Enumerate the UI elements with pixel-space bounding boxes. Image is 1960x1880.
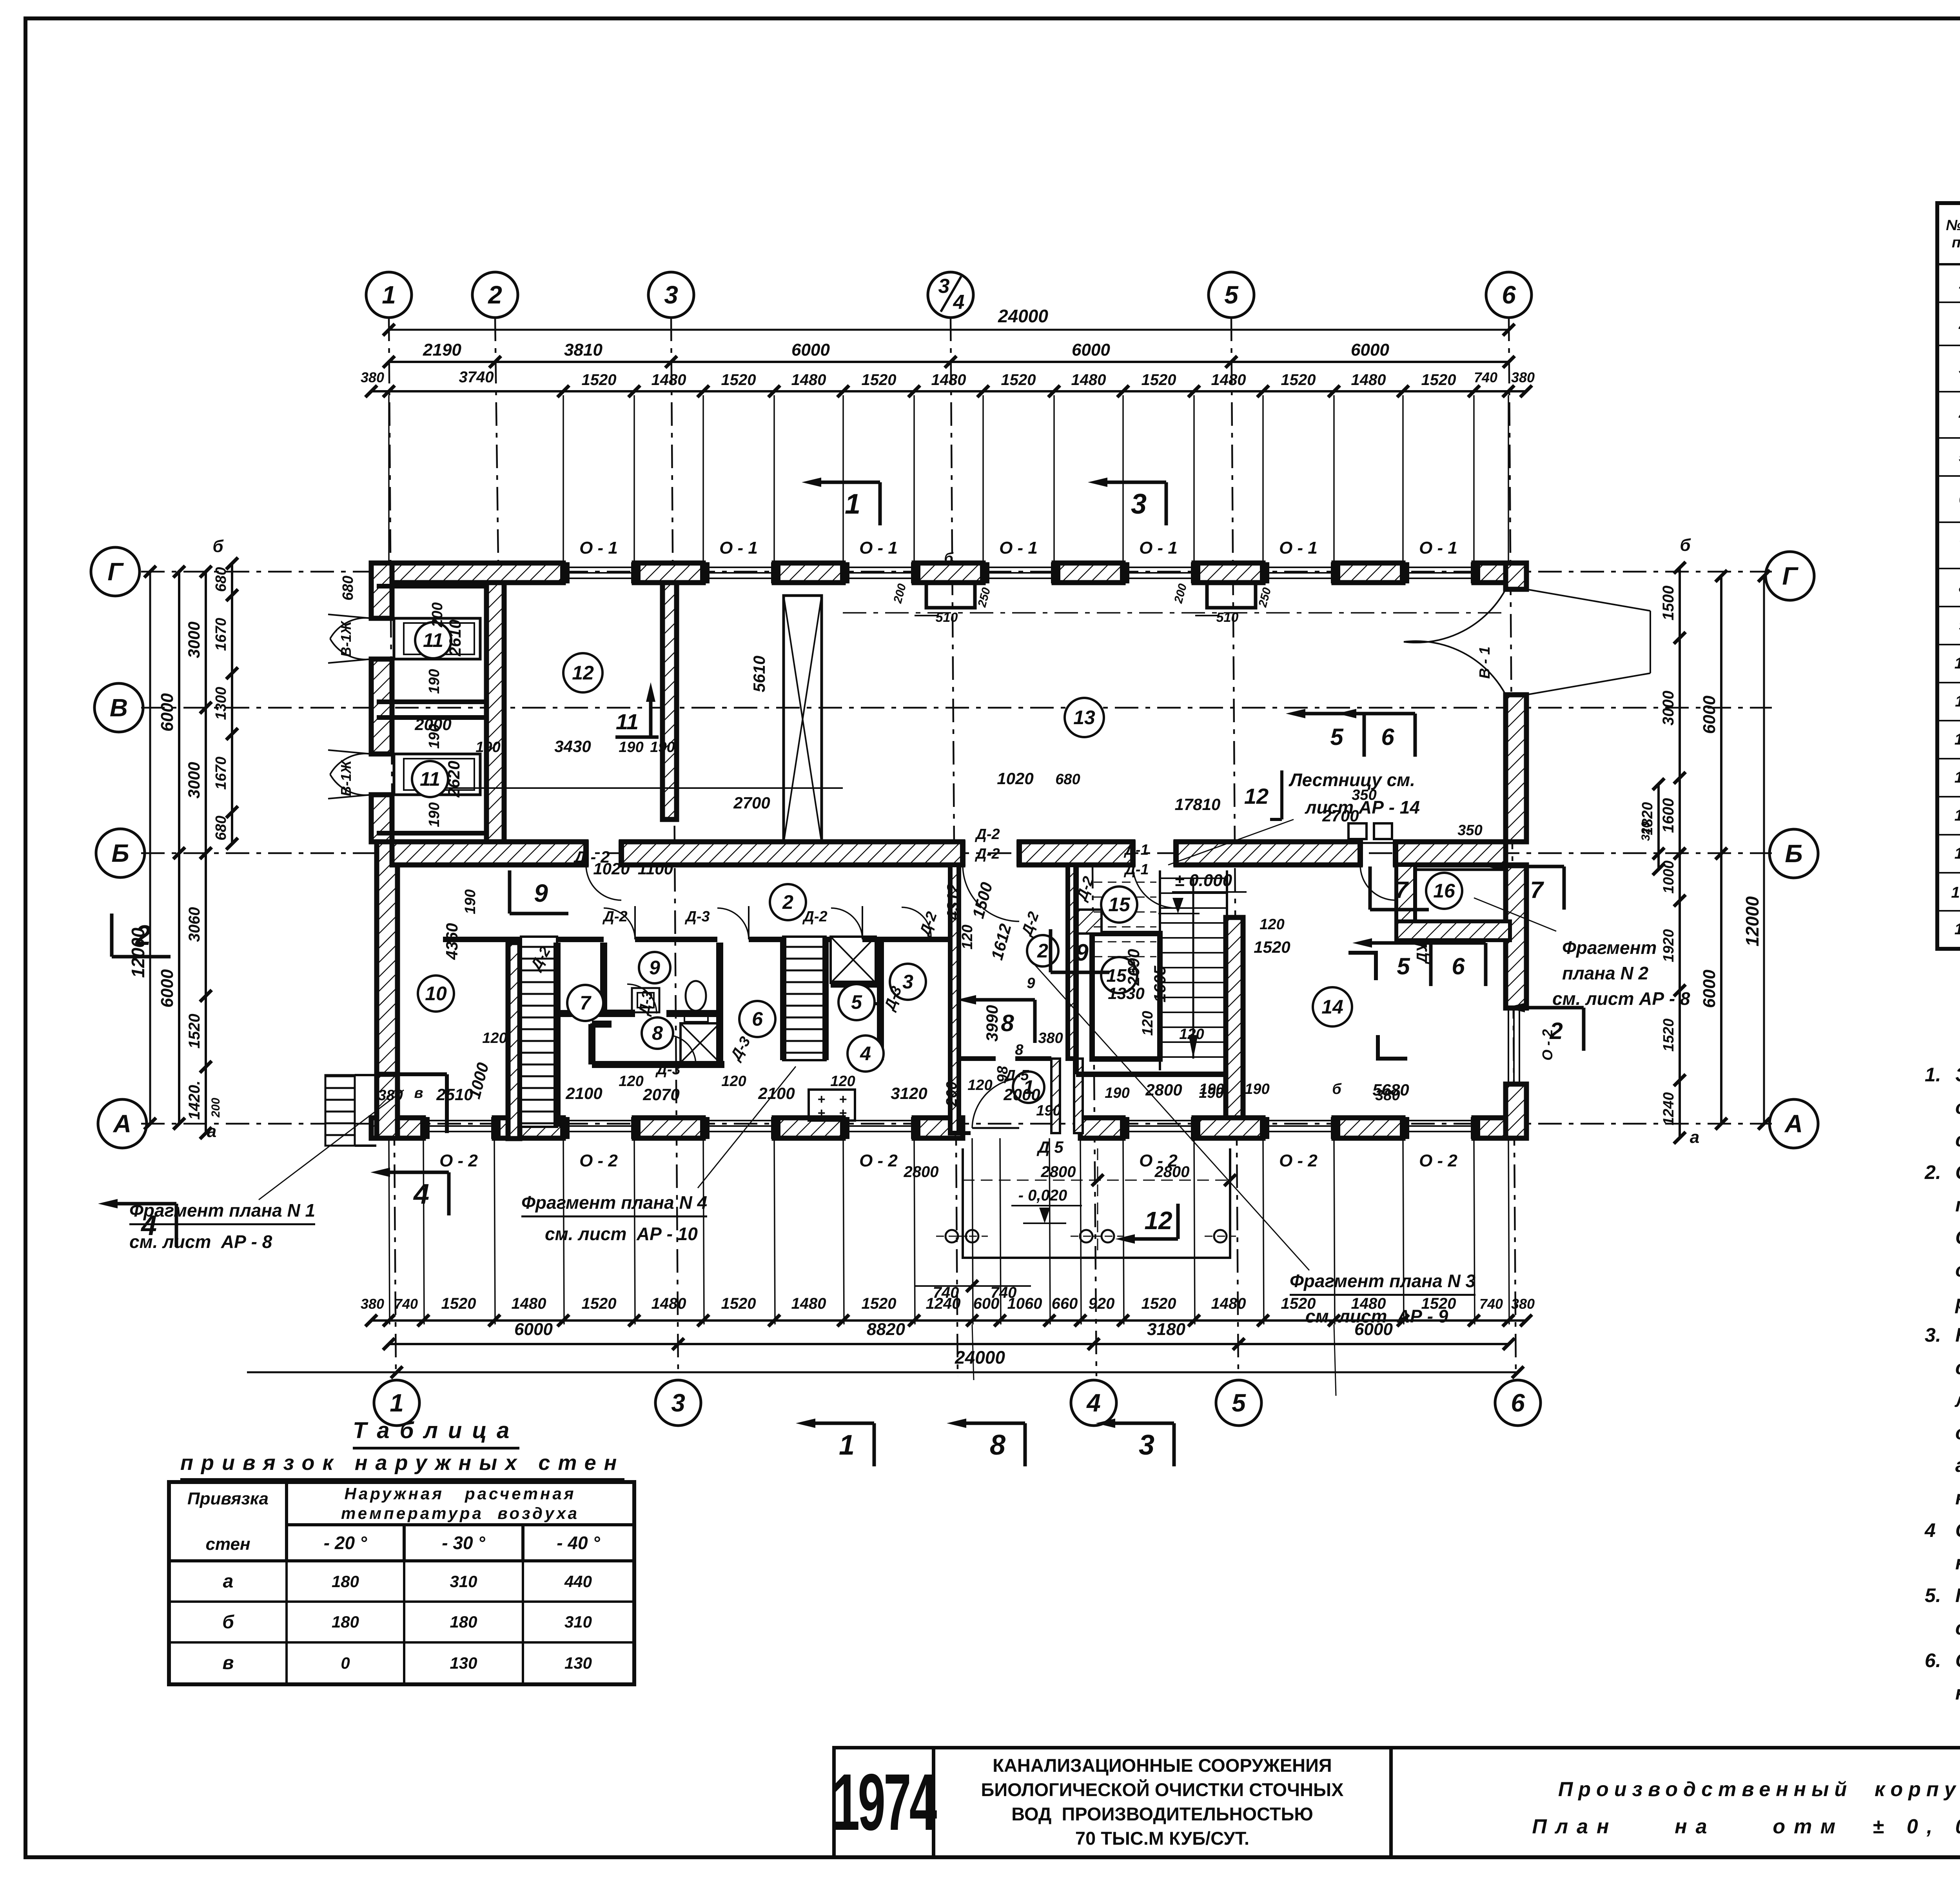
svg-text:9: 9	[534, 879, 548, 907]
room 6 label	[739, 1001, 775, 1037]
svg-text:1480: 1480	[1351, 1295, 1386, 1312]
svg-text:ДУ: ДУ	[1414, 941, 1430, 964]
svg-text:Д-2: Д-2	[975, 826, 1000, 843]
svg-text:1520: 1520	[1254, 938, 1290, 956]
svg-text:В - 1: В - 1	[1477, 647, 1493, 679]
svg-text:1520: 1520	[1001, 371, 1036, 389]
svg-text:5: 5	[851, 991, 862, 1013]
svg-text:Б: Б	[111, 839, 129, 867]
svg-text:1520: 1520	[862, 1295, 897, 1312]
svg-text:1100: 1100	[638, 859, 673, 878]
room 16 walls	[1396, 865, 1415, 924]
room 9 walls	[600, 943, 607, 1014]
svg-text:+: +	[839, 1106, 847, 1121]
svg-text:380: 380	[361, 1296, 384, 1312]
svg-text:9: 9	[1075, 939, 1089, 966]
svg-text:2700: 2700	[733, 794, 770, 812]
svg-text:5: 5	[1232, 1389, 1246, 1417]
svg-text:1480: 1480	[791, 371, 826, 389]
svg-text:1480: 1480	[1071, 371, 1106, 389]
svg-text:14: 14	[1321, 996, 1343, 1018]
room 5 label	[838, 984, 875, 1020]
svg-text:6000: 6000	[514, 1320, 553, 1339]
room 15a label	[1101, 957, 1137, 993]
corridor wall door swings	[586, 865, 621, 900]
dash-dot crane line room 13	[843, 612, 1501, 614]
room 9/6 wall	[716, 943, 723, 1064]
rooms 11 partitions	[377, 584, 486, 589]
svg-text:6: 6	[1502, 281, 1516, 309]
svg-text:4: 4	[140, 1210, 157, 1241]
overall 12000 left	[149, 572, 151, 1124]
grid axis 1 top	[366, 272, 412, 318]
section mark 9	[1049, 929, 1053, 972]
svg-text:190: 190	[1105, 1085, 1129, 1101]
svg-text:320: 320	[1639, 821, 1652, 841]
svg-text:120: 120	[1140, 1011, 1156, 1035]
svg-text:- 0,020: - 0,020	[1018, 1187, 1067, 1204]
svg-text:12: 12	[572, 662, 594, 684]
svg-text:Д-3: Д-3	[881, 984, 905, 1014]
section mark 8	[1033, 1000, 1037, 1043]
svg-text:А: А	[1784, 1110, 1803, 1138]
svg-text:Д-1: Д-1	[1123, 842, 1149, 858]
svg-text:1520: 1520	[1281, 371, 1316, 389]
svg-text:2800: 2800	[1145, 1081, 1182, 1099]
svg-text:3120: 3120	[891, 1084, 927, 1103]
svg-text:250: 250	[1256, 586, 1274, 609]
svg-text:11: 11	[420, 768, 440, 790]
svg-text:380: 380	[1375, 1087, 1400, 1104]
room 8 label	[642, 1017, 673, 1049]
svg-text:1520: 1520	[582, 1295, 617, 1312]
svg-text:Г: Г	[1782, 562, 1798, 590]
svg-text:17810: 17810	[1175, 795, 1221, 814]
svg-text:6: 6	[1452, 953, 1465, 979]
wardrobe rack room 7	[521, 937, 557, 1127]
axis V line	[141, 707, 1772, 709]
svg-text:200: 200	[429, 602, 446, 627]
svg-text:О - 2: О - 2	[859, 1151, 898, 1170]
svg-text:В-1Ж: В-1Ж	[338, 760, 354, 796]
svg-text:1670: 1670	[213, 757, 229, 790]
room 3 label	[890, 964, 926, 1000]
svg-text:2: 2	[488, 281, 502, 309]
svg-text:350: 350	[1457, 822, 1482, 839]
svg-text:200: 200	[891, 582, 909, 605]
section mark 3	[1165, 482, 1168, 525]
svg-text:Д-2: Д-2	[802, 908, 827, 925]
svg-text:1480: 1480	[1211, 1295, 1246, 1312]
section mark 6	[1484, 943, 1488, 986]
svg-text:120: 120	[721, 1073, 746, 1090]
grid axis 1 bottom	[374, 1380, 419, 1426]
grid axis 5 bottom	[1216, 1380, 1261, 1426]
section mark 6	[1414, 714, 1417, 757]
svg-text:3: 3	[671, 1389, 685, 1417]
svg-text:190: 190	[1199, 1081, 1224, 1097]
svg-text:1480: 1480	[791, 1295, 826, 1312]
svg-text:± 0.000: ± 0.000	[1175, 871, 1232, 890]
svg-text:7: 7	[580, 992, 592, 1014]
svg-text:1: 1	[839, 1430, 855, 1461]
svg-text:920: 920	[1089, 1295, 1115, 1312]
room 15 label	[1101, 886, 1137, 923]
room 2 label	[770, 884, 806, 920]
svg-text:2000: 2000	[1003, 1085, 1040, 1104]
svg-text:2: 2	[782, 891, 793, 913]
east window О-2	[1508, 1008, 1509, 1084]
svg-text:3000: 3000	[185, 762, 203, 798]
exterior side stair west	[325, 1075, 355, 1146]
svg-text:8820: 8820	[867, 1320, 905, 1339]
svg-text:190: 190	[475, 739, 500, 756]
east double door В-1	[1526, 589, 1650, 611]
grid axis А right	[1769, 1099, 1818, 1148]
svg-text:6: 6	[752, 1008, 763, 1030]
entrance door Д-5	[972, 1127, 1019, 1129]
axis A line	[141, 1123, 1772, 1125]
svg-text:1520: 1520	[1142, 1295, 1176, 1312]
svg-text:7: 7	[1395, 877, 1409, 903]
svg-text:1520: 1520	[1142, 371, 1176, 389]
svg-text:1520: 1520	[721, 371, 756, 389]
svg-text:3: 3	[1139, 1430, 1154, 1461]
svg-text:Б: Б	[1785, 839, 1802, 868]
grid axis В left	[94, 683, 143, 732]
stairwell boundary walls	[1073, 865, 1079, 1074]
svg-text:1480: 1480	[1351, 371, 1386, 389]
svg-text:380: 380	[1038, 1030, 1063, 1046]
svg-text:120: 120	[619, 1073, 643, 1090]
svg-text:13: 13	[1073, 707, 1095, 728]
svg-text:О - 1: О - 1	[859, 538, 898, 558]
svg-text:8: 8	[1015, 1042, 1024, 1058]
svg-text:3990: 3990	[983, 1005, 1001, 1041]
svg-text:О - 1: О - 1	[1139, 538, 1178, 558]
extension lines top	[388, 395, 390, 563]
svg-text:3180: 3180	[1147, 1320, 1185, 1339]
svg-text:1520: 1520	[862, 371, 897, 389]
lobby walls	[956, 865, 958, 1133]
svg-text:380: 380	[361, 369, 384, 385]
section mark 2	[1582, 1008, 1586, 1051]
equipment hoists room 13	[1348, 823, 1367, 839]
exterior wall axis Г (north)	[371, 563, 563, 583]
west exterior wall	[371, 563, 392, 618]
svg-text:12000: 12000	[1742, 896, 1762, 946]
svg-text:190: 190	[619, 739, 643, 756]
svg-text:1500: 1500	[1660, 586, 1677, 621]
svg-text:380: 380	[1511, 1296, 1535, 1312]
svg-text:190: 190	[426, 724, 443, 748]
window dimensions top	[371, 390, 1526, 392]
room 14 label	[1313, 987, 1352, 1026]
svg-text:3: 3	[1131, 489, 1147, 520]
svg-text:2610: 2610	[446, 619, 464, 656]
west double doors В-1Ж swings	[328, 614, 371, 618]
svg-text:1480: 1480	[652, 1295, 686, 1312]
svg-text:Д-3: Д-3	[655, 1061, 680, 1078]
partition right of rack room 7	[554, 943, 561, 1127]
fragment reference texts	[129, 1200, 315, 1225]
svg-text:2800: 2800	[904, 1163, 939, 1181]
room 2 label	[1027, 935, 1058, 966]
svg-text:9: 9	[1027, 975, 1035, 992]
overall dimension 24000 top	[389, 329, 1509, 331]
svg-text:4: 4	[413, 1179, 429, 1210]
svg-text:Д - 2: Д - 2	[573, 848, 610, 866]
svg-text:2800: 2800	[1041, 1163, 1076, 1181]
section mark 2	[110, 914, 114, 957]
svg-text:2620: 2620	[445, 761, 463, 797]
room 9 label	[639, 952, 670, 983]
svg-text:Д-3: Д-3	[727, 1034, 754, 1064]
window dimensions bottom	[371, 1319, 1526, 1322]
svg-text:1420.: 1420.	[186, 1081, 203, 1120]
svg-text:Д-2: Д-2	[602, 908, 627, 925]
svg-text:3000: 3000	[1660, 691, 1677, 726]
svg-text:740: 740	[1474, 369, 1497, 385]
svg-text:6000: 6000	[791, 340, 830, 360]
grid axis Г right	[1766, 552, 1814, 600]
porch section mark 12	[1176, 1204, 1180, 1239]
svg-text:6000: 6000	[158, 693, 177, 732]
exterior wall axis А (south)	[371, 1118, 423, 1138]
svg-text:1670: 1670	[213, 618, 229, 651]
span dimensions bottom	[389, 1343, 1509, 1345]
grid axis Б left	[96, 829, 145, 877]
svg-text:4360: 4360	[443, 923, 461, 960]
room 13 label	[1065, 698, 1104, 737]
svg-text:1520: 1520	[721, 1295, 756, 1312]
svg-text:4: 4	[1086, 1389, 1101, 1417]
section mark 4	[175, 1204, 178, 1247]
grid axis 2 top	[472, 272, 518, 318]
room 10 east wall	[508, 943, 520, 1139]
svg-text:а: а	[1690, 1128, 1699, 1147]
section mark 11	[615, 736, 659, 739]
svg-text:Д-2: Д-2	[975, 846, 1000, 862]
svg-text:б: б	[212, 537, 224, 556]
svg-text:б: б	[1332, 1081, 1342, 1097]
wall between room 12 and 13	[662, 583, 677, 819]
basement stair between 6 and 4	[783, 937, 826, 1060]
svg-text:Д 5: Д 5	[1036, 1138, 1063, 1156]
room 14 west wall	[1226, 917, 1243, 1118]
svg-text:Д-3: Д-3	[684, 908, 710, 925]
svg-text:8: 8	[990, 1430, 1005, 1461]
lobby west wall	[950, 865, 959, 1133]
svg-text:1600: 1600	[1660, 798, 1677, 833]
notes text	[1925, 1059, 1960, 1709]
svg-text:660: 660	[1052, 1295, 1078, 1312]
svg-text:680: 680	[213, 567, 229, 592]
svg-text:12: 12	[1244, 784, 1269, 808]
svg-text:О - 1: О - 1	[1419, 538, 1457, 558]
svg-text:190: 190	[1245, 1081, 1269, 1097]
svg-text:1020: 1020	[997, 769, 1033, 788]
svg-text:680: 680	[340, 576, 356, 600]
svg-text:120: 120	[482, 1030, 507, 1046]
svg-text:3: 3	[664, 281, 678, 309]
lobby east wall	[1068, 865, 1076, 1059]
svg-text:120: 120	[1179, 1026, 1204, 1043]
svg-text:2700: 2700	[1322, 806, 1359, 825]
svg-text:1330: 1330	[1108, 984, 1144, 1003]
wall anchoring table title	[353, 1417, 519, 1450]
room 8 walls	[588, 1024, 595, 1064]
title block	[832, 1746, 1960, 1859]
svg-text:А: А	[113, 1110, 131, 1138]
section mark 1	[873, 1423, 876, 1466]
svg-text:1240: 1240	[1661, 1092, 1677, 1126]
shower room 8	[681, 1023, 720, 1063]
svg-text:2: 2	[134, 920, 151, 951]
svg-text:190: 190	[650, 739, 675, 756]
section mark 4	[447, 1172, 451, 1215]
svg-text:1920: 1920	[1661, 929, 1677, 963]
section mark 5	[1363, 714, 1366, 757]
svg-text:2070: 2070	[642, 1085, 679, 1104]
svg-text:740: 740	[394, 1296, 418, 1312]
partition door swings into corridor	[604, 908, 635, 939]
svg-text:3060: 3060	[186, 907, 203, 942]
svg-text:О - 1: О - 1	[1279, 538, 1318, 558]
room 12 label	[563, 653, 603, 692]
svg-text:2690: 2690	[1124, 949, 1143, 986]
svg-text:680: 680	[213, 816, 229, 840]
svg-text:В: В	[110, 694, 128, 722]
windows О-2 in south wall	[423, 1120, 494, 1121]
svg-text:120: 120	[959, 925, 976, 949]
axis 5 line	[1231, 318, 1238, 1376]
svg-text:9: 9	[649, 957, 660, 979]
svg-text:1520: 1520	[1421, 1295, 1456, 1312]
svg-text:200: 200	[1172, 582, 1189, 605]
svg-text:200: 200	[944, 1081, 960, 1106]
grid axis 3 bottom	[655, 1380, 701, 1426]
room 10 label	[418, 975, 454, 1012]
svg-text:16: 16	[1433, 880, 1455, 902]
svg-text:6000: 6000	[158, 969, 177, 1008]
svg-text:5: 5	[1224, 281, 1239, 309]
grid axis 6 bottom	[1495, 1380, 1541, 1426]
room 9 partitions	[602, 943, 606, 1012]
svg-text:+: +	[839, 1092, 847, 1107]
sanitary fixtures room 9	[632, 988, 659, 1012]
porch column circles	[946, 1230, 958, 1242]
svg-text:4312: 4312	[944, 883, 962, 920]
svg-text:Г: Г	[107, 558, 124, 586]
grid axis 5 top	[1209, 272, 1254, 318]
air intake notches 510 in north wall	[926, 583, 975, 608]
room schedule table	[1935, 201, 1960, 951]
svg-text:О - 2: О - 2	[1419, 1151, 1457, 1170]
axis 4 line	[1093, 865, 1096, 1376]
wall between rooms 11 and 12	[486, 583, 504, 842]
span dimensions top	[389, 361, 1509, 363]
svg-text:120: 120	[830, 1073, 855, 1090]
corner marks room 14	[1348, 953, 1376, 980]
room 11 label	[415, 622, 451, 658]
axis 1 line	[389, 318, 396, 1376]
svg-text:2100: 2100	[565, 1084, 602, 1103]
room 5/3 walls	[877, 937, 884, 1060]
svg-text:3430: 3430	[554, 737, 591, 756]
room 1 label	[1013, 1072, 1044, 1103]
door swings lower band	[627, 984, 657, 1014]
svg-text:1: 1	[390, 1389, 404, 1417]
svg-text:2800: 2800	[1154, 1163, 1190, 1181]
equipment room 11 lower	[394, 754, 480, 795]
span 6000 left	[178, 572, 180, 1124]
svg-text:1000: 1000	[465, 1061, 492, 1101]
svg-text:15: 15	[1108, 894, 1131, 915]
svg-text:1: 1	[382, 281, 396, 309]
room 10 lower walls	[398, 1072, 447, 1076]
svg-text:1520: 1520	[582, 371, 617, 389]
axis 2 line	[495, 318, 502, 865]
svg-text:6: 6	[1381, 724, 1394, 750]
section mark 7	[1563, 866, 1566, 910]
svg-text:+: +	[817, 1092, 825, 1107]
svg-text:8: 8	[1001, 1010, 1014, 1036]
grid axis Г left	[91, 547, 140, 596]
svg-text:О - 1: О - 1	[719, 538, 758, 558]
section mark 8	[1024, 1423, 1027, 1466]
svg-text:6000: 6000	[1354, 1320, 1393, 1339]
section mark 3	[1172, 1423, 1176, 1466]
svg-text:6: 6	[1511, 1389, 1525, 1417]
room 16 label	[1426, 873, 1462, 909]
svg-text:680: 680	[1055, 771, 1080, 788]
svg-text:О - 2: О - 2	[579, 1151, 618, 1170]
overall 12000 right	[1763, 576, 1765, 1124]
detail right bottom	[1679, 854, 1681, 1138]
grid axis Б right	[1769, 829, 1818, 878]
svg-text:О - 2: О - 2	[1279, 1151, 1318, 1170]
svg-text:190: 190	[426, 802, 443, 827]
section mark 7	[1368, 866, 1372, 910]
svg-text:б: б	[1680, 536, 1691, 555]
stairwell room 15 treads	[1160, 877, 1227, 879]
grid axis А left	[98, 1099, 147, 1148]
room 7 label	[567, 985, 603, 1021]
svg-text:350: 350	[1352, 787, 1376, 803]
svg-text:190: 190	[462, 889, 479, 914]
wall right of basement stair	[822, 937, 829, 1060]
svg-text:6000: 6000	[1072, 340, 1110, 360]
equipment shaft in room 13	[784, 596, 822, 843]
svg-text:2: 2	[1549, 1018, 1563, 1044]
extension lines bottom	[389, 1138, 390, 1324]
svg-text:+: +	[817, 1106, 825, 1121]
svg-text:4: 4	[860, 1043, 871, 1064]
svg-text:2: 2	[1037, 940, 1048, 962]
svg-text:1520: 1520	[1421, 371, 1456, 389]
room 4 label	[848, 1035, 884, 1072]
svg-text:5610: 5610	[750, 656, 768, 692]
svg-text:5: 5	[1330, 724, 1344, 750]
svg-text:В-1Ж: В-1Ж	[338, 621, 354, 657]
wall anchoring table	[167, 1480, 636, 1686]
svg-text:190: 190	[426, 669, 443, 694]
corridor south partition wall	[443, 937, 604, 942]
section mark 1	[878, 482, 882, 525]
room 11 label	[412, 761, 448, 797]
svg-text:1520: 1520	[1661, 1019, 1677, 1052]
